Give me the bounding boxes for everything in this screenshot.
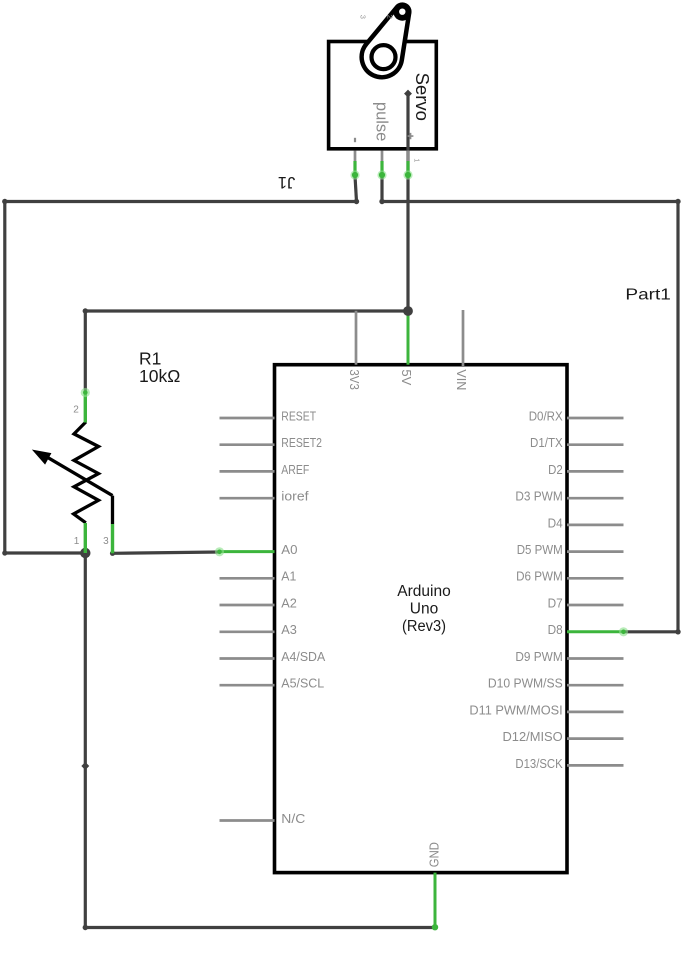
svg-text:VIN: VIN <box>454 369 468 390</box>
potentiometer R1 pin 3 leg <box>111 524 114 553</box>
svg-text:A2: A2 <box>281 596 297 610</box>
arduino left pin labels <box>281 409 325 826</box>
arduino Part1 body <box>275 365 568 873</box>
arduino top pin labels <box>347 369 468 390</box>
svg-text:RESET: RESET <box>281 409 316 423</box>
svg-text:D13/SCK: D13/SCK <box>515 757 563 771</box>
svg-text:ioref: ioref <box>281 490 309 504</box>
servo J1 pin numbers <box>358 15 421 163</box>
svg-text:5V: 5V <box>399 369 413 386</box>
arduino pin GND connected leg <box>432 873 438 931</box>
svg-text:D12/MISO: D12/MISO <box>503 730 563 744</box>
svg-text:(Rev3): (Rev3) <box>402 618 446 635</box>
svg-text:2: 2 <box>386 15 395 19</box>
wire R1 down <box>84 553 87 766</box>
potentiometer R1 value label <box>139 349 180 387</box>
arduino left pin legs <box>220 418 275 821</box>
svg-text:Servo: Servo <box>412 73 433 121</box>
servo J1 plus label <box>408 133 414 139</box>
servo J1 pin legs <box>350 151 412 180</box>
wire pulse horizontal to right <box>379 199 680 204</box>
servo ref label J1 <box>278 173 295 191</box>
svg-text:2: 2 <box>73 405 79 416</box>
svg-text:Arduino: Arduino <box>397 583 450 600</box>
svg-text:3: 3 <box>358 15 367 19</box>
svg-text:D5 PWM: D5 PWM <box>517 543 563 557</box>
wire bottom-left vertical <box>84 766 87 928</box>
wire R1 pin2 vertical <box>84 311 87 393</box>
svg-text:Uno: Uno <box>410 600 438 617</box>
svg-text:D9 PWM: D9 PWM <box>515 650 562 664</box>
junction node GND-R1 <box>80 548 90 558</box>
svg-text:D10 PWM/SS: D10 PWM/SS <box>488 677 563 691</box>
wire left vertical <box>3 202 6 554</box>
svg-text:A3: A3 <box>281 623 297 637</box>
svg-text:D0/RX: D0/RX <box>529 409 564 423</box>
svg-text:A0: A0 <box>281 543 297 557</box>
arduino pin D8 connected leg <box>567 627 628 636</box>
arduino ref label Part1 <box>625 286 671 303</box>
arduino right pin labels <box>469 409 563 770</box>
potentiometer R1 pin 2 leg <box>81 388 90 423</box>
svg-text:GND: GND <box>427 842 441 867</box>
svg-text:A4/SDA: A4/SDA <box>281 650 325 664</box>
junction node 5V <box>403 306 413 316</box>
svg-text:D11 PWM/MOSI: D11 PWM/MOSI <box>469 703 562 717</box>
potentiometer R1 pin numbers <box>73 405 109 547</box>
svg-text:RESET2: RESET2 <box>281 436 322 450</box>
svg-text:N/C: N/C <box>281 812 305 826</box>
svg-text:1: 1 <box>413 158 422 162</box>
servo J1 title <box>412 73 433 121</box>
wire R1 wiper to A0 <box>110 551 220 556</box>
svg-text:D7: D7 <box>548 596 563 610</box>
wire top-left horizontal <box>2 199 359 204</box>
svg-text:D6 PWM: D6 PWM <box>516 570 563 584</box>
wire R1-5V horizontal <box>83 308 408 313</box>
svg-text:A5/SCL: A5/SCL <box>281 677 324 691</box>
arduino bottom pin label GND <box>427 842 441 867</box>
svg-text:3V3: 3V3 <box>347 369 361 390</box>
svg-text:AREF: AREF <box>281 463 309 477</box>
svg-text:pulse: pulse <box>373 102 391 141</box>
servo J1 body <box>329 42 437 149</box>
arduino top pin legs 3V3 VIN <box>356 310 463 366</box>
arduino pin A0 connected leg <box>215 547 275 556</box>
potentiometer R1 wiper arrow <box>33 450 113 524</box>
svg-text:Part1: Part1 <box>625 286 671 303</box>
potentiometer R1 zigzag <box>74 422 99 523</box>
svg-text:D8: D8 <box>548 623 563 637</box>
svg-text:D1/TX: D1/TX <box>530 436 563 450</box>
arduino title label <box>397 583 450 635</box>
svg-text:A1: A1 <box>281 570 296 584</box>
wire junction diamond <box>81 762 89 770</box>
servo J1 horn <box>362 3 412 78</box>
potentiometer R1 pin 1 leg <box>84 523 87 553</box>
svg-text:D2: D2 <box>548 463 563 477</box>
wire right to D8 <box>624 629 681 634</box>
wire left-bottom horizontal to R1 <box>2 550 85 555</box>
svg-text:1: 1 <box>74 536 80 547</box>
svg-text:3: 3 <box>103 536 109 547</box>
servo J1 minus label <box>354 138 356 142</box>
svg-text:J1: J1 <box>278 173 295 191</box>
servo J1 pin labels <box>373 102 391 141</box>
wire servo-minus down <box>355 176 357 202</box>
wire servo-pulse down <box>380 176 383 202</box>
wire right vertical <box>676 202 679 632</box>
arduino right pin legs <box>567 418 624 765</box>
svg-text:10kΩ: 10kΩ <box>139 366 180 386</box>
svg-text:D4: D4 <box>548 516 563 530</box>
wire servo-plus down to 5V junction <box>404 90 412 311</box>
svg-text:D3 PWM: D3 PWM <box>515 490 562 504</box>
wire bottom horizontal <box>83 925 435 930</box>
arduino pin 5V connected leg <box>407 311 410 365</box>
